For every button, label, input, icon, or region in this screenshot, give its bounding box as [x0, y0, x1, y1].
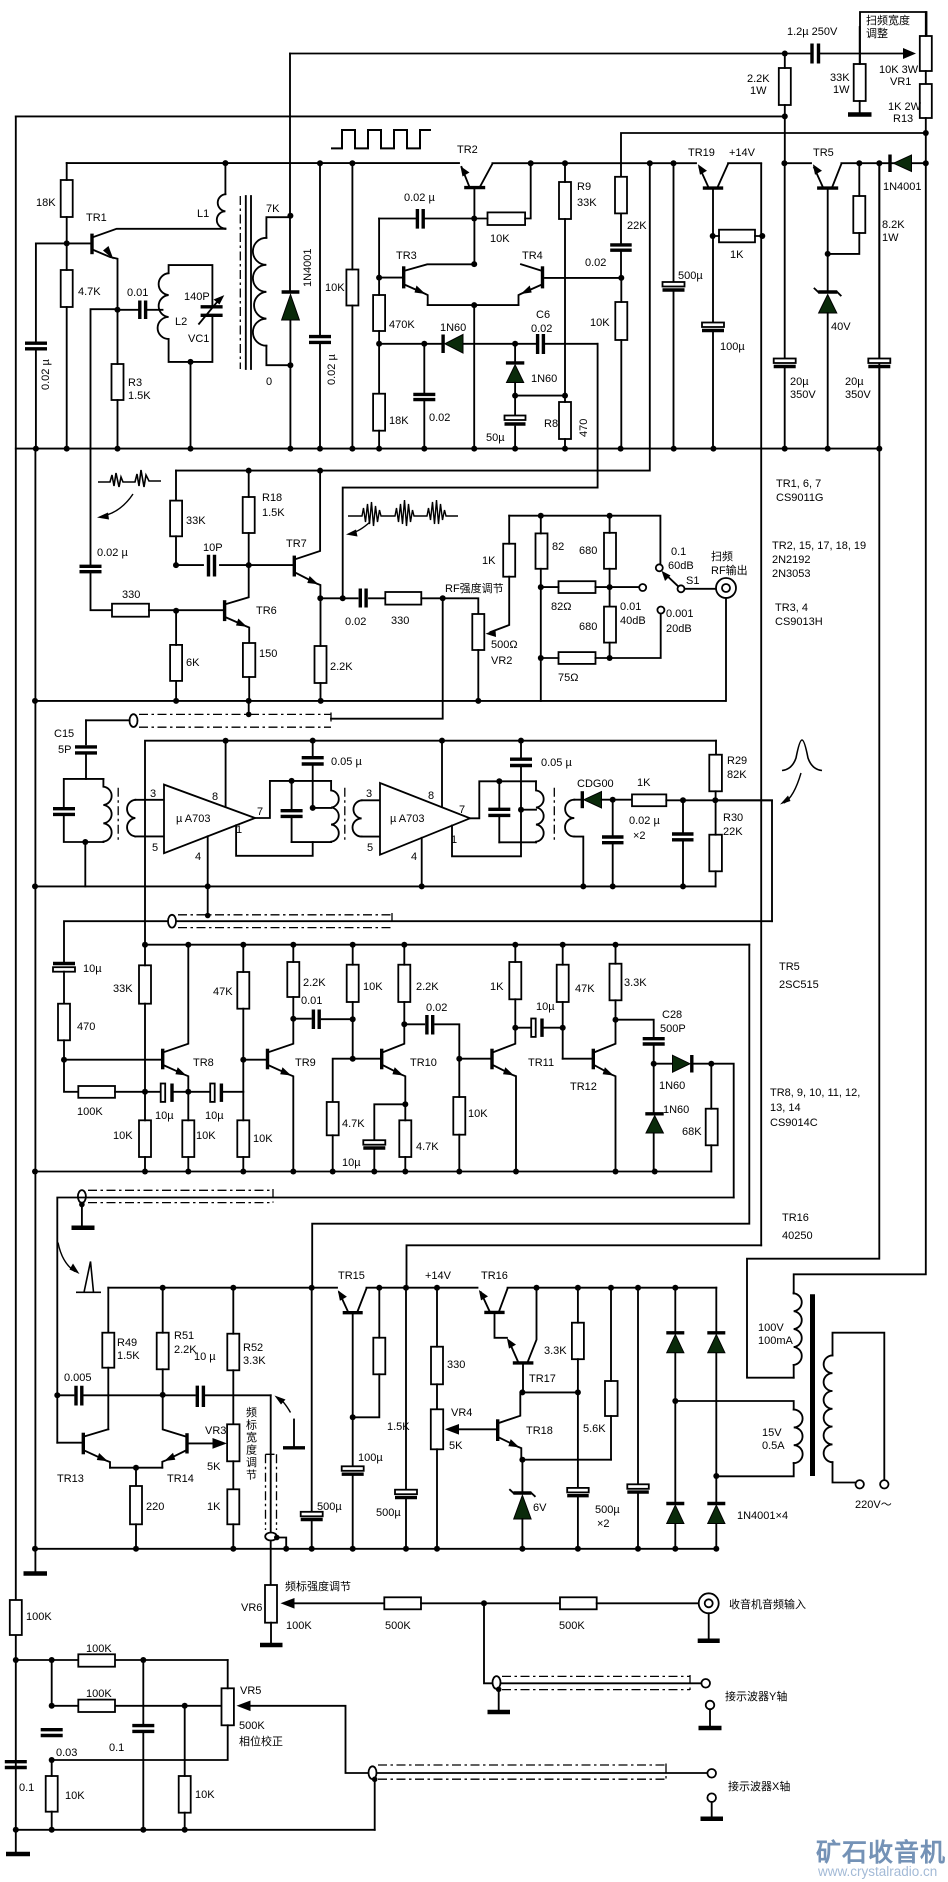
- coax5 conductor: [484, 1603, 701, 1683]
- capacitor 500u x2 no2: [635, 1285, 641, 1291]
- svg-text:VR3: VR3: [205, 1425, 226, 1437]
- resistor 10K no5: [453, 1097, 465, 1135]
- switch contact 0.001 20dB: [610, 614, 661, 658]
- ground bar under 33K: [848, 112, 872, 117]
- wire TR7 emitter node: [320, 597, 357, 599]
- potentiometer VR6 100K: [265, 1585, 277, 1623]
- svg-text:1.5K: 1.5K: [117, 1350, 140, 1362]
- svg-text:5: 5: [152, 842, 158, 854]
- svg-text:500µ: 500µ: [595, 1504, 620, 1516]
- diode 1N4001 horizontal: [888, 155, 891, 173]
- svg-text:20µ: 20µ: [845, 376, 864, 388]
- svg-text:TR12: TR12: [570, 1081, 597, 1093]
- capacitor 50u electrolytic: [514, 396, 516, 449]
- capacitor C28 500P: [616, 1020, 654, 1064]
- svg-text:5P: 5P: [58, 744, 71, 756]
- svg-text:TR11: TR11: [528, 1057, 554, 1069]
- resistor 220: [130, 1486, 142, 1524]
- bus y1171 ground: [35, 1171, 711, 1173]
- svg-text:R51: R51: [174, 1330, 194, 1342]
- svg-text:CDG00: CDG00: [577, 778, 614, 790]
- svg-text:3.3K: 3.3K: [624, 977, 647, 989]
- wire TR8 base: [64, 1059, 162, 1061]
- svg-text:×2: ×2: [597, 1518, 610, 1530]
- resistor 18K: [61, 180, 73, 217]
- resistor 68K: [706, 1109, 718, 1146]
- capacitor C6 0.02: [512, 341, 518, 347]
- svg-text:22K: 22K: [627, 220, 647, 232]
- svg-text:CS9014C: CS9014C: [770, 1117, 818, 1129]
- svg-text:1K 2W: 1K 2W: [888, 101, 922, 113]
- U2 pin8 wire: [441, 741, 443, 807]
- svg-text:18K: 18K: [389, 415, 409, 427]
- marker rail y1287 left: [108, 1287, 337, 1289]
- potentiometer VR4 5K: [431, 1409, 443, 1449]
- bridge diode D3: [672, 1398, 678, 1404]
- svg-text:1W: 1W: [833, 84, 850, 96]
- svg-text:0.1: 0.1: [671, 546, 686, 558]
- svg-text:µ A703: µ A703: [390, 813, 424, 825]
- wire x925 long vertical: [794, 163, 926, 1293]
- svg-text:CS9013H: CS9013H: [775, 616, 823, 628]
- svg-text:33K: 33K: [113, 983, 133, 995]
- svg-text:2N3053: 2N3053: [772, 568, 811, 580]
- svg-text:TR9: TR9: [295, 1057, 316, 1069]
- resistor 47K no2: [557, 965, 569, 1002]
- svg-text:33K: 33K: [186, 515, 206, 527]
- connector Y axis ground: [706, 1701, 715, 1710]
- svg-text:20µ: 20µ: [790, 376, 809, 388]
- winding 15V 0.5A: [675, 1401, 793, 1410]
- svg-text:TR18: TR18: [526, 1425, 553, 1437]
- svg-text:收音机音频输入: 收音机音频输入: [729, 1597, 806, 1611]
- capacitor 500u x312: [309, 1285, 315, 1291]
- svg-text:10K: 10K: [196, 1130, 216, 1142]
- svg-text:100mA: 100mA: [758, 1335, 794, 1347]
- svg-text:度: 度: [246, 1443, 257, 1457]
- resistor 3.3K TR17: [575, 1285, 581, 1291]
- svg-text:2SC515: 2SC515: [779, 979, 819, 991]
- svg-text:10K: 10K: [65, 1790, 85, 1802]
- connector 220V terminals: [856, 1480, 864, 1488]
- curved arrow noise: [352, 522, 370, 533]
- resistor 82: [536, 533, 548, 568]
- diode 1N60 horizontal: [379, 343, 515, 345]
- op-amp U2 uA703: [380, 783, 470, 855]
- VR6 wiper wire: [294, 1602, 384, 1604]
- svg-text:4.7K: 4.7K: [342, 1118, 365, 1130]
- resistor R8: [559, 402, 571, 439]
- curved arrow probe: [278, 1398, 291, 1413]
- svg-text:2.2K: 2.2K: [330, 661, 353, 673]
- capacitor 100u TR15: [352, 1417, 354, 1466]
- capacitor 10u marker output: [197, 1386, 203, 1407]
- capacitor C15 5P: [85, 720, 87, 779]
- tank3 coil: [536, 781, 544, 842]
- curved arrow to TR6 input: [103, 494, 133, 516]
- potentiometer VR5 500K: [222, 1688, 234, 1725]
- svg-text:5K: 5K: [449, 1440, 463, 1452]
- resistor 75ohm horizontal: [538, 655, 544, 661]
- bridge diode D1: [672, 1285, 678, 1291]
- svg-text:+14V: +14V: [729, 147, 756, 159]
- U2 pin4 wire: [421, 838, 423, 887]
- capacitor 0.02u TR2: [379, 218, 474, 220]
- svg-text:www.crystalradio.cn: www.crystalradio.cn: [817, 1864, 937, 1879]
- svg-text:R52: R52: [243, 1342, 263, 1354]
- svg-text:频标强度调节: 频标强度调节: [285, 1579, 351, 1593]
- resistor 10K no1: [139, 1120, 151, 1157]
- U1 pin4 wire: [207, 836, 209, 916]
- resistor R51 2.2K: [160, 1285, 166, 1291]
- resistor R9 33K: [562, 160, 568, 166]
- svg-text:R9: R9: [577, 181, 591, 193]
- coax3 shield: [78, 1190, 86, 1203]
- T2 secondary: [362, 800, 380, 836]
- svg-text:0.05 µ: 0.05 µ: [541, 757, 572, 769]
- svg-text:R49: R49: [117, 1337, 137, 1349]
- bell curve symbol: [782, 740, 822, 771]
- main bus y163 segment TR5: [784, 162, 811, 164]
- resistor R18 1.5K: [246, 468, 252, 474]
- node dot L2 bottom: [188, 359, 194, 365]
- svg-text:0.02 µ: 0.02 µ: [97, 547, 128, 559]
- resistor 18K x379: [376, 341, 382, 347]
- capacitor 0.02u x2 no2: [680, 797, 686, 803]
- svg-text:82K: 82K: [727, 769, 747, 781]
- resistor 4.7K TR10 base: [333, 1059, 353, 1102]
- transformer core bar: [810, 1294, 815, 1476]
- capacitor 10u input electrolytic: [53, 962, 75, 965]
- resistor 1K horizontal: [710, 233, 716, 239]
- transformer T1 core: [117, 788, 119, 843]
- main bus y163 TR19 collector run to +14V drop: [728, 162, 761, 164]
- node dot TR1 base: [64, 240, 70, 246]
- svg-text:40250: 40250: [782, 1230, 813, 1242]
- svg-text:TR10: TR10: [410, 1057, 437, 1069]
- svg-text:220V～: 220V～: [855, 1499, 892, 1511]
- wire x649 drop to TR6 stage rail: [647, 160, 653, 166]
- svg-text:相位校正: 相位校正: [239, 1734, 283, 1748]
- capacitor 0.1 mid: [142, 1660, 144, 1830]
- wire top sweep line y53: [290, 53, 810, 55]
- svg-text:8.2K: 8.2K: [882, 219, 905, 231]
- marker rail y1287 right: [508, 1287, 717, 1289]
- svg-text:接示波器X轴: 接示波器X轴: [728, 1779, 790, 1793]
- node y1660 line: [13, 1657, 19, 1663]
- resistor 100K horizontal no2: [78, 1700, 115, 1712]
- main bus y163 segment 2: [492, 162, 696, 164]
- svg-text:VR1: VR1: [890, 76, 911, 88]
- svg-text:0.02: 0.02: [585, 257, 606, 269]
- svg-text:470: 470: [578, 419, 590, 437]
- svg-text:500µ: 500µ: [678, 270, 703, 282]
- capacitor 500u x2 no1: [577, 1392, 579, 1487]
- U1 pin1 wire: [236, 825, 313, 856]
- svg-text:4.7K: 4.7K: [416, 1141, 439, 1153]
- capacitor 10u coupling no3: [515, 1027, 562, 1029]
- svg-text:40V: 40V: [831, 321, 851, 333]
- svg-text:500Ω: 500Ω: [491, 639, 518, 651]
- connector RF output: [716, 578, 736, 598]
- svg-text:8: 8: [212, 791, 218, 803]
- svg-text:0.02 µ: 0.02 µ: [404, 192, 435, 204]
- resistor 10K x621: [615, 302, 627, 340]
- svg-text:R13: R13: [893, 113, 913, 125]
- svg-text:0.1: 0.1: [109, 1742, 124, 1754]
- capacitor 10u coupling no2: [210, 1084, 215, 1102]
- svg-text:L2: L2: [175, 316, 187, 328]
- svg-text:33K: 33K: [830, 72, 850, 84]
- resistor 10K bottom no1: [46, 1776, 58, 1812]
- capacitor 0.05u no1: [310, 738, 316, 744]
- svg-text:0.01: 0.01: [127, 287, 148, 299]
- svg-text:TR8, 9, 10, 11, 12,: TR8, 9, 10, 11, 12,: [770, 1087, 860, 1099]
- svg-text:500K: 500K: [239, 1720, 265, 1732]
- coax3 conductor: [57, 1198, 733, 1443]
- resistor 150: [243, 643, 255, 677]
- svg-text:7: 7: [459, 804, 465, 816]
- tank2 coil: [331, 781, 339, 842]
- svg-text:0.001: 0.001: [666, 608, 694, 620]
- svg-text:1.5K: 1.5K: [128, 390, 151, 402]
- svg-text:TR1, 6, 7: TR1, 6, 7: [776, 478, 821, 490]
- diode 1N60 pointing right: [654, 1063, 712, 1065]
- bus y700 ground: [35, 700, 725, 702]
- resistor 680 no2: [604, 607, 616, 643]
- svg-text:矿石收音机: 矿石收音机: [816, 1838, 946, 1867]
- svg-text:VR5: VR5: [240, 1685, 261, 1697]
- svg-text:20dB: 20dB: [666, 623, 692, 635]
- svg-text:100K: 100K: [86, 1643, 112, 1655]
- svg-text:10µ: 10µ: [536, 1001, 555, 1013]
- resistor 5.6K: [608, 1285, 614, 1291]
- svg-text:TR14: TR14: [167, 1473, 194, 1485]
- resistor 2.2K 1W vertical: [779, 68, 791, 105]
- svg-text:R8: R8: [544, 418, 558, 430]
- svg-text:40dB: 40dB: [620, 615, 646, 627]
- coax5 shield: [493, 1676, 501, 1689]
- svg-text:100µ: 100µ: [358, 1452, 383, 1464]
- inductor 7K secondary: [266, 217, 290, 365]
- coax1 shield stub from bus: [248, 701, 250, 714]
- svg-text:0.02: 0.02: [426, 1002, 447, 1014]
- resistor 680 no1: [604, 533, 616, 569]
- svg-text:TR5: TR5: [813, 147, 834, 159]
- capacitor 0.02 coupling: [404, 1024, 459, 1058]
- resistor 500K no2: [560, 1597, 597, 1609]
- bus y886 ground: [35, 885, 716, 887]
- svg-text:1.2µ 250V: 1.2µ 250V: [787, 26, 838, 38]
- connector X axis: [707, 1769, 716, 1778]
- capacitor 0.01: [118, 309, 163, 311]
- resistor R30 22K: [709, 835, 722, 872]
- potentiometer VR3 5K: [227, 1424, 239, 1461]
- main bus y448 ground: [16, 448, 880, 450]
- svg-text:1K: 1K: [482, 555, 496, 567]
- svg-text:4: 4: [411, 851, 417, 863]
- coax1 cable shield: [130, 714, 138, 727]
- svg-text:TR1: TR1: [86, 212, 107, 224]
- svg-text:10µ: 10µ: [342, 1157, 361, 1169]
- U1 pin7 wire and tank2: [255, 781, 331, 842]
- svg-text:7: 7: [257, 806, 263, 818]
- svg-text:10K: 10K: [195, 1789, 215, 1801]
- resistor 33K 1W vertical: [854, 64, 866, 101]
- svg-text:0.05 µ: 0.05 µ: [331, 756, 362, 768]
- wire R8 node: [512, 393, 518, 399]
- capacitor 10P: [173, 562, 179, 568]
- U1 pin8 wire: [225, 741, 227, 807]
- capacitor 20u 350V no1: [784, 163, 786, 448]
- svg-text:50µ: 50µ: [486, 432, 505, 444]
- coax3 shield ground: [81, 1203, 83, 1226]
- svg-text:350V: 350V: [845, 389, 871, 401]
- switch contact 0.01 40dB: [610, 586, 640, 588]
- resistor 10K no4: [347, 965, 359, 1002]
- transformer T3 core: [553, 788, 555, 843]
- capacitor 10u coupling no1: [161, 1084, 166, 1102]
- svg-text:4.7K: 4.7K: [78, 286, 101, 298]
- capacitor 0.02u left x36: [35, 243, 37, 448]
- winding 100V 100mA: [794, 1293, 802, 1365]
- svg-text:0.02: 0.02: [531, 323, 552, 335]
- svg-text:0.03: 0.03: [56, 1747, 77, 1759]
- svg-text:330: 330: [447, 1359, 465, 1371]
- svg-text:15V: 15V: [762, 1427, 782, 1439]
- svg-text:75Ω: 75Ω: [558, 672, 578, 684]
- capacitor 0.02u x90: [80, 566, 102, 571]
- svg-text:33K: 33K: [577, 197, 597, 209]
- tank1 coil: [103, 779, 111, 842]
- resistor 100K horizontal no1: [78, 1654, 115, 1666]
- diode 1N60 vertical no2: [653, 1064, 655, 1172]
- svg-text:10K: 10K: [590, 317, 610, 329]
- capacitor 20u 350V no2: [878, 163, 880, 448]
- coax2 conductor: [64, 921, 772, 962]
- callout box 扫频宽度调整: [860, 12, 927, 64]
- capacitor 0.03: [41, 1730, 63, 1736]
- svg-text:TR2: TR2: [457, 144, 478, 156]
- svg-text:60dB: 60dB: [668, 560, 694, 572]
- svg-text:150: 150: [259, 648, 277, 660]
- svg-text:500µ: 500µ: [376, 1507, 401, 1519]
- svg-text:500K: 500K: [385, 1620, 411, 1632]
- U2 pin7 wire and tank3: [470, 781, 536, 842]
- svg-text:1N60: 1N60: [663, 1104, 689, 1116]
- wire R30 node to +14V riser: [715, 800, 772, 921]
- svg-text:100K: 100K: [86, 1688, 112, 1700]
- variable capacitor VC1 140P: [201, 307, 223, 316]
- resistor R3 1.5K: [115, 307, 121, 313]
- marker rail y1287 mid: [367, 1287, 478, 1289]
- svg-text:1N4001: 1N4001: [302, 248, 314, 287]
- svg-text:10K: 10K: [253, 1133, 273, 1145]
- damped wave symbol: [98, 470, 161, 487]
- wire y116 horizontal from border: [16, 115, 785, 117]
- tank1 circuit: [64, 779, 104, 842]
- resistor 1K attenuator: [503, 544, 515, 577]
- resistor 33K TR6: [170, 501, 182, 537]
- svg-text:330: 330: [391, 615, 409, 627]
- resistor 22K x621: [620, 163, 622, 243]
- amplifier rail y944: [145, 944, 749, 946]
- switch contact 0.1 60dB: [656, 564, 663, 571]
- resistor 100K vertical left: [10, 1600, 22, 1635]
- svg-text:3: 3: [150, 788, 156, 800]
- wire y1705 line: [52, 1660, 222, 1706]
- T1 secondary: [135, 800, 164, 837]
- svg-text:6V: 6V: [533, 1502, 547, 1514]
- resistor 33K TR8: [139, 965, 151, 1003]
- svg-text:扫频宽度: 扫频宽度: [866, 13, 910, 27]
- svg-text:S1: S1: [686, 575, 699, 587]
- resistor 3.3K TR12: [610, 964, 622, 1001]
- tank3 capacitor: [498, 781, 500, 842]
- wire 68K node to coax3: [711, 1064, 733, 1198]
- svg-text:2.2K: 2.2K: [747, 73, 770, 85]
- svg-text:2.2K: 2.2K: [416, 981, 439, 993]
- coax6 shield ground riser: [372, 1777, 378, 1783]
- svg-text:RF强度调节: RF强度调节: [445, 581, 504, 595]
- inductor L2 tank: [169, 265, 213, 362]
- attenuator top wire y515: [509, 516, 660, 564]
- svg-text:TR5: TR5: [779, 961, 800, 973]
- svg-text:0.01: 0.01: [620, 601, 641, 613]
- svg-text:0.02 µ: 0.02 µ: [40, 359, 52, 390]
- VR1 wiper arrow: [903, 48, 916, 59]
- resistor 82ohm horizontal: [538, 584, 544, 590]
- svg-text:500K: 500K: [559, 1620, 585, 1632]
- svg-text:100K: 100K: [77, 1106, 103, 1118]
- resistor 10K bottom no2: [179, 1776, 191, 1813]
- svg-text:500µ: 500µ: [317, 1501, 342, 1513]
- svg-text:1W: 1W: [882, 232, 899, 244]
- svg-text:10µ: 10µ: [155, 1110, 174, 1122]
- svg-text:3.3K: 3.3K: [544, 1345, 567, 1357]
- coax4 shield dashes: [266, 1454, 277, 1530]
- resistor R49 1.5K: [107, 1288, 109, 1333]
- svg-text:+14V: +14V: [425, 1270, 452, 1282]
- resistor 330 horizontal right: [385, 592, 421, 605]
- svg-text:TR8: TR8: [193, 1057, 214, 1069]
- coax1 conductor right: [331, 598, 443, 718]
- wire x879 long vertical: [747, 163, 879, 1378]
- svg-text:5: 5: [367, 842, 373, 854]
- capacitor 0.005: [54, 1392, 60, 1398]
- bridge diode D4: [713, 1473, 719, 1479]
- coax4 shield ground link: [274, 1535, 280, 1541]
- svg-text:C15: C15: [54, 728, 74, 740]
- coax4 conductor down to VR6: [270, 1395, 272, 1585]
- svg-text:2.2K: 2.2K: [303, 977, 326, 989]
- svg-text:TR17: TR17: [529, 1373, 556, 1385]
- capacitor 0.01 coupling: [293, 1018, 352, 1021]
- svg-text:TR3, 4: TR3, 4: [775, 602, 808, 614]
- svg-text:10P: 10P: [203, 542, 223, 554]
- svg-text:4: 4: [195, 851, 201, 863]
- svg-text:6K: 6K: [186, 657, 200, 669]
- resistor 1K horizontal det: [632, 794, 666, 806]
- resistor 8.2K: [856, 160, 862, 166]
- resistor 1K marker: [227, 1489, 239, 1524]
- svg-text:C6: C6: [536, 309, 550, 321]
- wire feedback loop x597: [343, 344, 598, 598]
- node dot R13-y133: [923, 130, 929, 136]
- capacitor 1.2u 250V: [812, 44, 819, 64]
- svg-text:R29: R29: [727, 755, 747, 767]
- connector radio audio input: [699, 1593, 719, 1613]
